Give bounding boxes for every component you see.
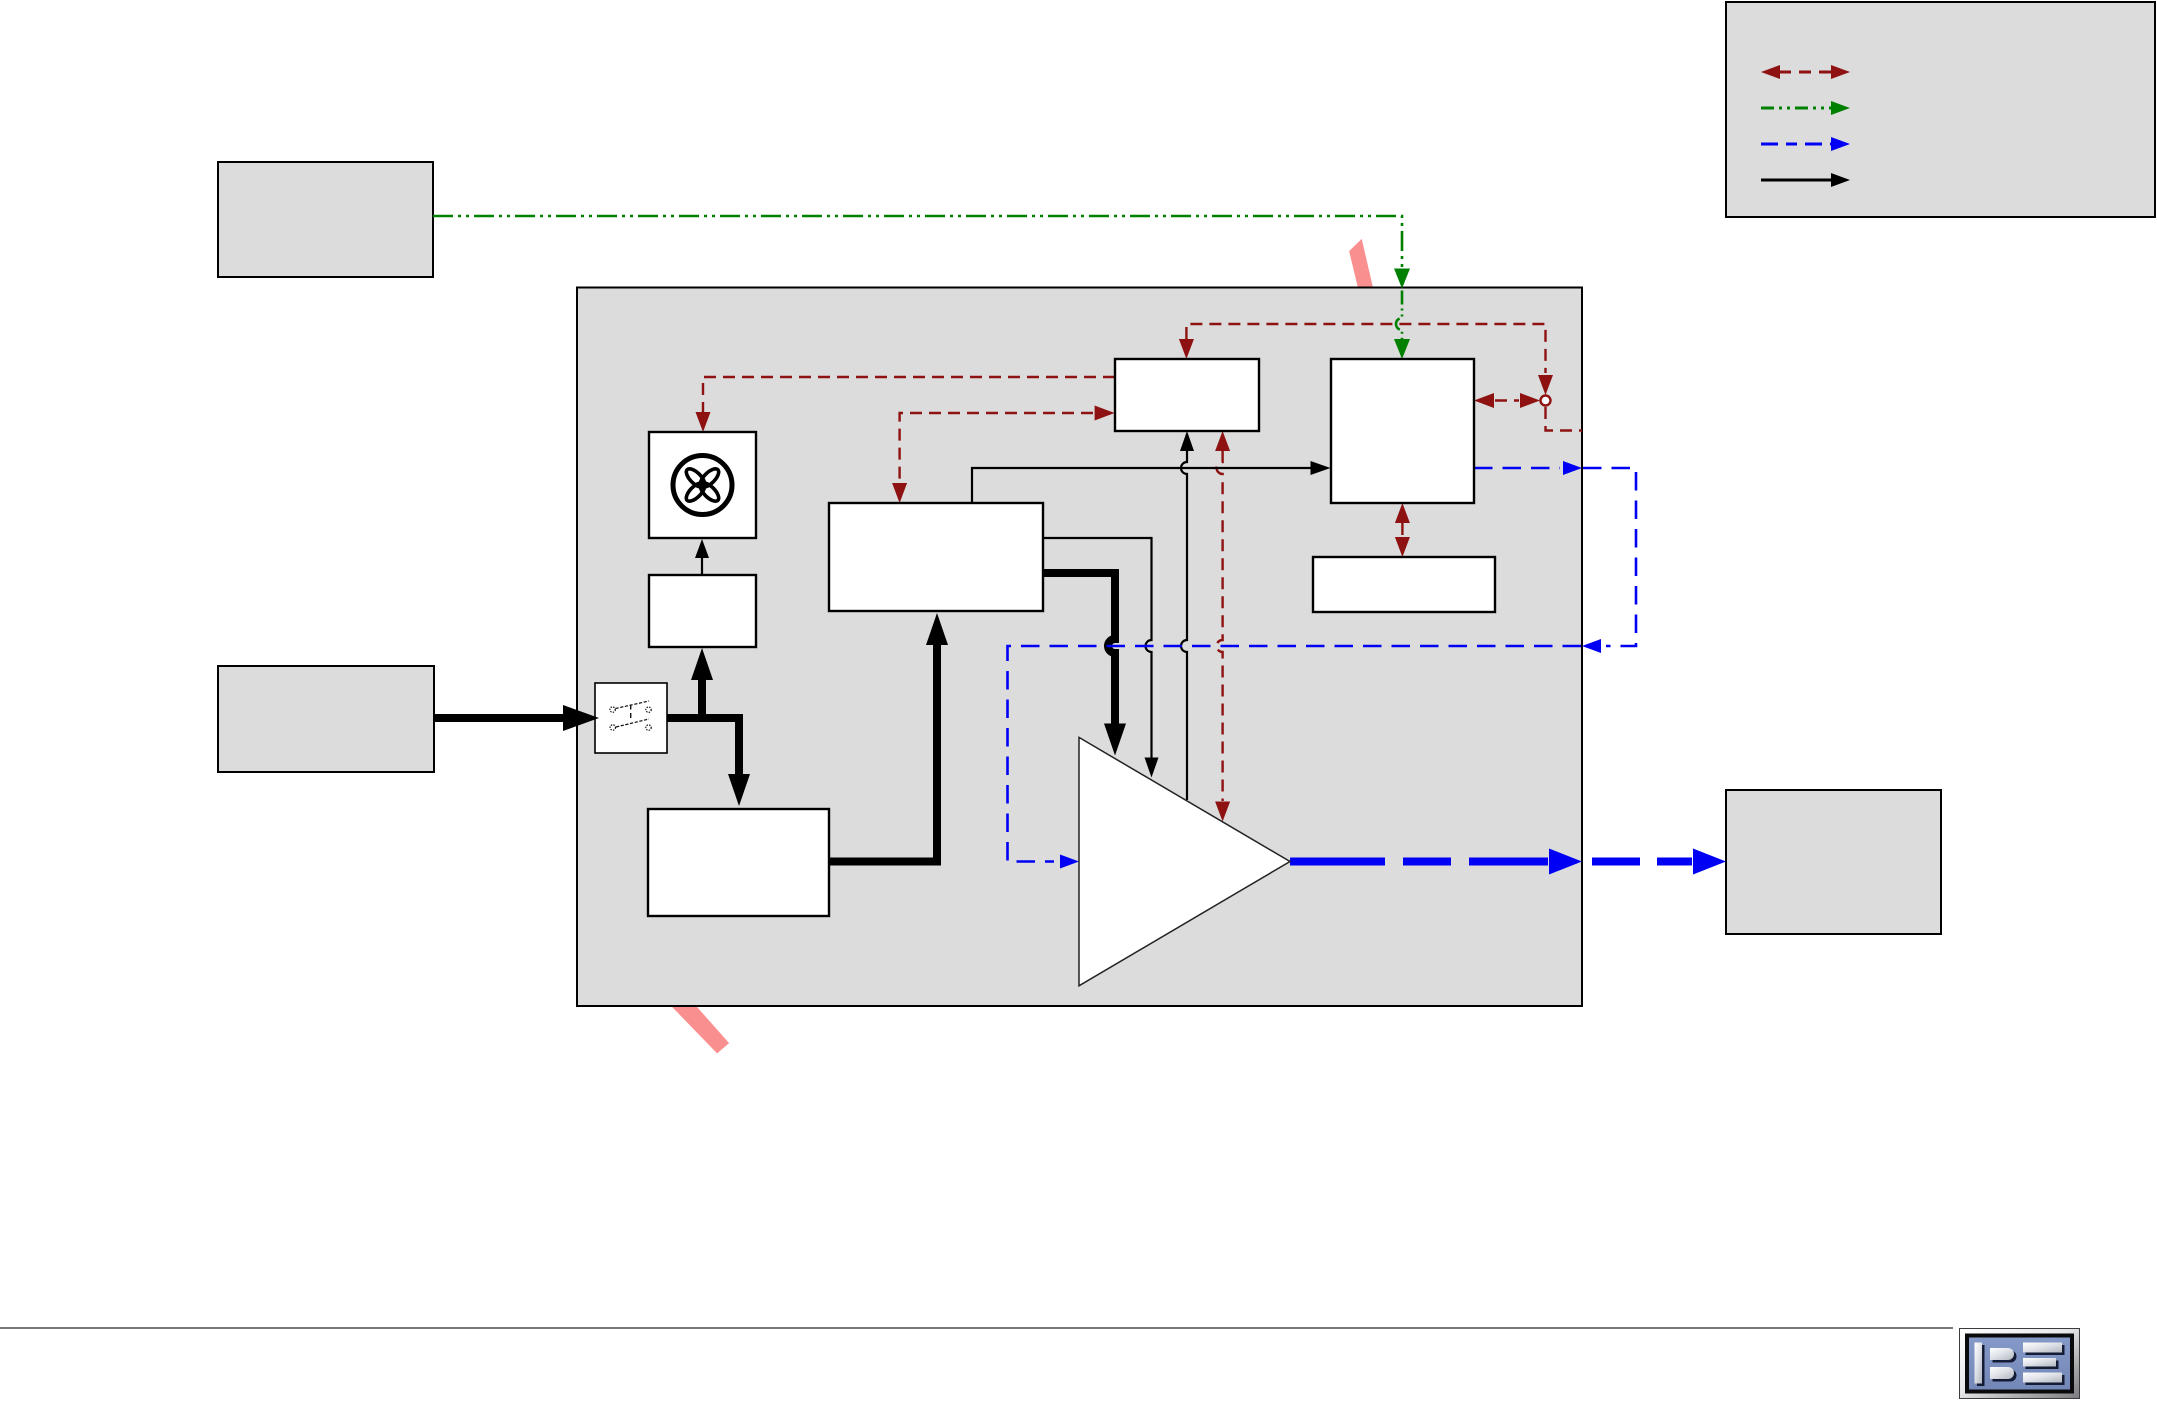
legend dark-red bidirectional dashed arrow [1779, 71, 1833, 74]
IBE logo [1960, 1329, 2080, 1399]
wire blue from interface box to enclosure edge [1474, 467, 1560, 470]
psu aux box [649, 575, 756, 647]
wire thick power control box to amplifier [1043, 573, 1115, 725]
interface box right [1331, 359, 1474, 503]
wire blue return into amplifier input [1008, 646, 1582, 862]
fan unit box [649, 432, 756, 538]
power supply box bottom-left [648, 809, 829, 916]
amplifier triangle [1079, 737, 1290, 985]
mains switch box [595, 683, 667, 753]
wire green dash-dot-dot from top-left box to enclosure [433, 216, 1402, 268]
wire dark-red from top box to fan unit [703, 377, 1115, 412]
wire blue outside loop [1583, 468, 1636, 646]
control box center [829, 503, 1043, 611]
node open circle junction [1541, 396, 1551, 406]
wire dark-red double arrow interface box to memory box [1401, 523, 1403, 537]
wire green continuation inside enclosure into interface box [1396, 291, 1402, 340]
wire black from control box to amplifier input [1043, 538, 1152, 758]
pink highlight stroke bottom-left [672, 1007, 729, 1054]
wire black from control box top to interface box [972, 468, 1311, 503]
fan icon [673, 456, 732, 515]
footer rule [0, 1327, 1953, 1329]
wire thick power from mains box into enclosure [434, 714, 566, 722]
top processor box [1115, 359, 1259, 431]
wire dark-red vertical feedback from top box to amplifier [1217, 451, 1223, 801]
wire dark-red from node to enclosure right edge [1546, 407, 1583, 431]
wire thick blue amplifier output to enclosure edge [1290, 858, 1548, 866]
legend box [1726, 2, 2155, 217]
legend green dash-dot-dot arrow [1761, 107, 1833, 110]
legend blue dashed arrow [1761, 143, 1833, 146]
wire dark-red top loop from top box to junction node [1186, 324, 1545, 373]
switch symbol [610, 701, 651, 730]
external load box right [1726, 790, 1941, 934]
wire thick blue output to external load box [1592, 858, 1692, 866]
legend black solid arrow [1761, 179, 1833, 182]
pink highlight stroke top [1349, 239, 1373, 288]
wire thick power entry arrowhead [563, 705, 599, 731]
memory box lower-right [1313, 557, 1495, 612]
wire dark-red fork to control box and top box [900, 413, 1093, 483]
wire dark-red double arrow between interface box and node [1495, 399, 1519, 401]
wire thick power psu to control box [829, 645, 937, 862]
main amplifier enclosure [577, 288, 1582, 1007]
external source box top-left [218, 162, 433, 277]
wire black vertical from amplifier to top box [1181, 451, 1187, 800]
external mains box left [218, 666, 434, 772]
wire black small arrow psu-aux to fan [701, 557, 703, 575]
wire thick power from switch to junction and down [667, 718, 739, 774]
